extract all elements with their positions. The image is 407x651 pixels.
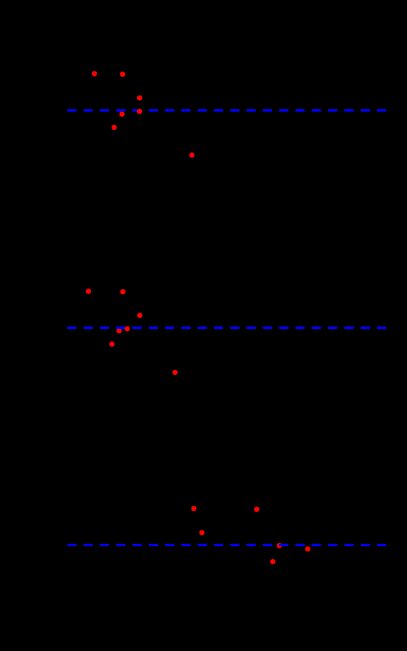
point s1-1	[92, 71, 97, 76]
point s2-4	[125, 326, 130, 331]
point s2-1	[86, 289, 91, 294]
point s3-2	[254, 507, 259, 512]
point s1-4	[137, 109, 142, 114]
point s2-6	[172, 370, 177, 375]
subplot 2 points	[86, 289, 178, 375]
subplot 1 points	[92, 71, 195, 158]
residual point under line 3	[277, 543, 282, 548]
residual point under line 2	[116, 328, 121, 333]
point s1-5	[119, 111, 124, 116]
point s2-3	[137, 313, 142, 318]
point s1-6	[112, 125, 117, 130]
point s3-4	[305, 546, 310, 551]
subplot 3 points	[191, 506, 310, 564]
point s1-3	[137, 95, 142, 100]
point s2-2	[120, 289, 125, 294]
zero line subplot 2	[67, 327, 386, 330]
zero line subplot 3	[67, 544, 386, 546]
point s1-2	[120, 72, 125, 77]
point s3-3	[199, 530, 204, 535]
zero line subplot 1	[67, 109, 386, 112]
point s3-5	[270, 559, 275, 564]
point s3-1	[191, 506, 196, 511]
point s1-7	[189, 152, 194, 157]
point s2-5	[109, 341, 114, 346]
